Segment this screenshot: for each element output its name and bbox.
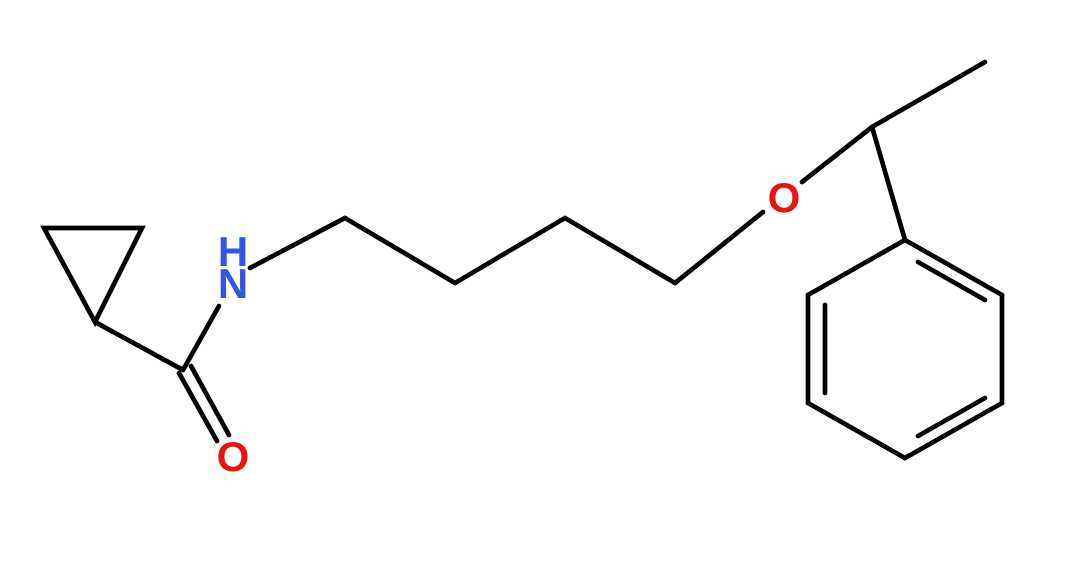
- bond O-CH benzylic: [802, 127, 872, 182]
- aromatic inner bond NE: [918, 262, 985, 300]
- bond CH-CH3: [872, 62, 985, 127]
- bond CH-phenyl: [872, 127, 905, 240]
- bond cyclopropane to carbonyl C: [95, 322, 183, 370]
- cyclopropane ring: [44, 228, 142, 322]
- bond C1-C2: [345, 218, 455, 283]
- bond C-N: [183, 306, 219, 370]
- carbonyl C=O double bond: [179, 373, 217, 441]
- aromatic inner bond W: [823, 305, 828, 393]
- bond C2-C3: [455, 218, 565, 283]
- bond C3-C4: [565, 218, 675, 283]
- aromatic inner bond SE: [918, 398, 985, 436]
- benzene ring right: [808, 240, 1002, 458]
- bond C4-O ether: [675, 212, 763, 283]
- svg-text:N: N: [218, 260, 248, 307]
- svg-text:O: O: [768, 174, 801, 221]
- svg-text:O: O: [217, 433, 250, 480]
- bond N-C1: [250, 218, 345, 268]
